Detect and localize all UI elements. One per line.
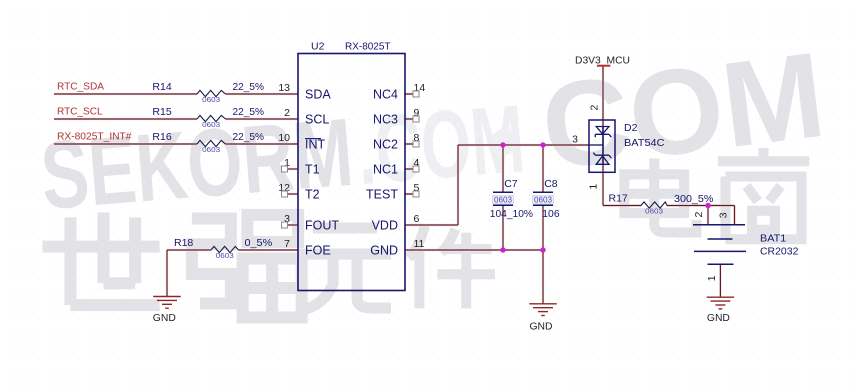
- pin number 2 (BAT1): [693, 212, 705, 218]
- footprint 0603 (C7): [493, 196, 514, 204]
- pin number 1 (BAT1): [706, 275, 718, 281]
- svg-text:BAT54C: BAT54C: [624, 137, 665, 149]
- transistor D2 BAT54C box: [589, 120, 615, 172]
- svg-text:CR2032: CR2032: [760, 246, 799, 258]
- wire FOUT stub: [288, 224, 299, 226]
- svg-text:3: 3: [718, 212, 730, 218]
- svg-text:NC1: NC1: [373, 163, 398, 177]
- wire halos: [54, 66, 735, 304]
- wire VDD net to D2 pin 3: [405, 145, 589, 225]
- svg-text:VDD: VDD: [372, 219, 398, 233]
- svg-text:U2: U2: [311, 41, 325, 53]
- svg-text:R17: R17: [609, 193, 628, 205]
- svg-text:2: 2: [589, 105, 601, 111]
- svg-text:R15: R15: [152, 106, 171, 118]
- svg-text:RX-8025T_INT#: RX-8025T_INT#: [57, 130, 132, 142]
- wire BAT1 pin 1 to GND: [719, 265, 721, 298]
- junction (543,145): [540, 142, 545, 147]
- svg-text:GND: GND: [153, 312, 176, 324]
- footprint 0603 (C8): [533, 196, 554, 204]
- wire C7 column: [502, 145, 504, 250]
- svg-text:1: 1: [587, 184, 599, 190]
- pin number 1 (D2): [587, 184, 599, 190]
- junction (543,250): [540, 247, 545, 252]
- svg-text:NC2: NC2: [373, 138, 398, 152]
- svg-text:TEST: TEST: [366, 188, 398, 202]
- svg-text:1: 1: [706, 275, 718, 281]
- svg-text:D3V3_MCU: D3V3_MCU: [575, 54, 630, 66]
- svg-text:RTC_SDA: RTC_SDA: [57, 80, 104, 92]
- svg-text:GND: GND: [707, 312, 730, 324]
- ground GND (middle): [529, 303, 557, 305]
- svg-text:GND: GND: [530, 321, 553, 333]
- svg-text:11: 11: [414, 238, 425, 250]
- svg-text:C7: C7: [504, 178, 518, 190]
- wire NC stubs: [405, 94, 413, 194]
- svg-text:0603: 0603: [534, 196, 553, 205]
- wire R18 to GND: [166, 250, 168, 297]
- svg-text:R14: R14: [152, 81, 171, 93]
- svg-text:13: 13: [278, 82, 290, 94]
- svg-text:INT: INT: [305, 138, 326, 152]
- wire RX-8025T_INT# net: [54, 143, 298, 145]
- svg-text:0603: 0603: [645, 207, 663, 216]
- junction (503,145): [500, 142, 505, 147]
- svg-text:SCL: SCL: [305, 113, 329, 127]
- junction (503,250): [500, 247, 505, 252]
- svg-text:7: 7: [284, 238, 290, 250]
- junction (708,205.5): [705, 203, 710, 208]
- svg-text:22_5%: 22_5%: [233, 81, 265, 93]
- svg-text:RX-8025T: RX-8025T: [345, 41, 391, 53]
- svg-text:RTC_SCL: RTC_SCL: [57, 105, 103, 117]
- svg-text:NC4: NC4: [373, 88, 398, 102]
- svg-text:NC3: NC3: [373, 113, 398, 127]
- svg-text:FOUT: FOUT: [305, 219, 339, 233]
- svg-text:T2: T2: [305, 188, 320, 202]
- svg-text:0_5%: 0_5%: [245, 237, 273, 249]
- svg-text:R18: R18: [174, 237, 193, 249]
- svg-text:0603: 0603: [202, 95, 220, 104]
- svg-text:106: 106: [542, 208, 559, 220]
- svg-text:2: 2: [284, 107, 290, 119]
- svg-text:2: 2: [693, 212, 705, 218]
- ground GND (left): [153, 296, 181, 298]
- svg-text:3: 3: [572, 133, 578, 145]
- wire BAT1 pin 2 stub: [707, 206, 709, 225]
- wire T2 stub: [288, 193, 299, 195]
- pin number 3 (BAT1): [718, 212, 730, 218]
- svg-text:22_5%: 22_5%: [233, 106, 265, 118]
- svg-text:D2: D2: [624, 122, 638, 134]
- svg-text:GND: GND: [370, 244, 398, 258]
- wire T1 stub: [288, 168, 299, 170]
- wire C8 column to GND: [542, 145, 544, 304]
- svg-text:0603: 0603: [202, 145, 220, 154]
- svg-text:22_5%: 22_5%: [233, 131, 265, 143]
- svg-text:104_10%: 104_10%: [490, 208, 533, 220]
- battery BAT1 plates: [693, 225, 746, 264]
- diode D2 internal symbols: [589, 127, 611, 165]
- wire D3V3_MCU / R17 row: [603, 66, 735, 225]
- pin number 2 (D2): [589, 105, 601, 111]
- svg-text:BAT1: BAT1: [760, 232, 786, 244]
- svg-text:10: 10: [278, 132, 290, 144]
- svg-text:0603: 0603: [216, 251, 234, 260]
- svg-text:SDA: SDA: [305, 88, 331, 102]
- svg-text:FOE: FOE: [305, 244, 331, 258]
- svg-text:T1: T1: [305, 163, 320, 177]
- op-amp U2 RX-8025T IC box: [298, 54, 405, 291]
- wire RTC_SDA net: [54, 93, 298, 95]
- svg-text:0603: 0603: [202, 120, 220, 129]
- wire RTC_SCL net: [54, 118, 298, 120]
- wire GND rail pin 11: [405, 249, 543, 251]
- svg-text:6: 6: [414, 213, 420, 225]
- svg-text:0603: 0603: [494, 196, 513, 205]
- svg-text:C8: C8: [544, 178, 558, 190]
- svg-text:R16: R16: [152, 131, 171, 143]
- ground GND (right): [707, 296, 735, 298]
- wire FOE to R18: [167, 249, 298, 251]
